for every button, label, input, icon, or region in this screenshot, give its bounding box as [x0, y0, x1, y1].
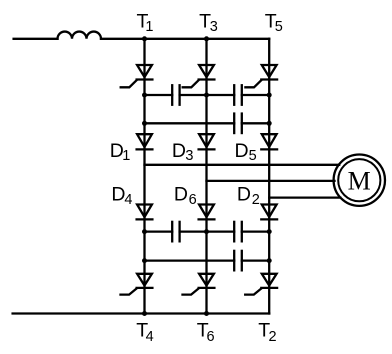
svg-text:D: D — [172, 140, 186, 162]
label D1 — [110, 140, 131, 164]
node: row2 / leg1 junction — [142, 121, 147, 126]
diode D1 — [137, 134, 153, 149]
label D5 — [235, 140, 257, 164]
thyristor T5 — [245, 65, 277, 87]
label T5 — [265, 10, 283, 35]
capacitor C12 (lower bank) — [172, 221, 179, 243]
svg-text:M: M — [348, 167, 371, 196]
label T1 — [137, 10, 154, 35]
label D4 — [111, 184, 132, 209]
node: row3 / leg3 junction — [267, 229, 272, 234]
node: row2 / leg3 junction — [267, 121, 272, 126]
label T3 — [199, 10, 218, 35]
label D3 — [172, 140, 194, 164]
svg-text:3: 3 — [185, 148, 193, 164]
thyristor T4 — [121, 274, 153, 295]
svg-text:1: 1 — [122, 148, 130, 164]
inductor L (DC link choke) — [58, 32, 102, 39]
wire: cap row2 leg1 to leg3 — [145, 122, 270, 124]
diode D4 — [137, 205, 153, 220]
wire: cap row3 leg2 to leg3 — [207, 230, 270, 232]
svg-text:4: 4 — [124, 192, 132, 208]
diode D2 — [261, 205, 277, 220]
label T6 — [197, 319, 215, 345]
svg-text:D: D — [174, 184, 188, 206]
thyristor T6 — [183, 274, 215, 295]
motor M inner circle — [338, 159, 380, 201]
wire: inductor to top rail — [101, 38, 145, 40]
svg-text:1: 1 — [145, 19, 153, 35]
svg-text:2: 2 — [269, 329, 277, 345]
wire: cap row4 leg1 to leg3 — [145, 259, 270, 261]
svg-text:6: 6 — [189, 192, 197, 208]
wire: cap row1 leg1 to leg2 — [145, 94, 207, 96]
wire: cap row3 leg1 to leg2 — [145, 230, 207, 232]
svg-text:D: D — [237, 184, 251, 206]
thyristor T1 — [121, 65, 153, 87]
capacitor C31 (lower bank) — [234, 250, 242, 272]
svg-text:4: 4 — [146, 329, 154, 345]
label D2 — [237, 184, 260, 209]
thyristor T2 — [245, 274, 277, 295]
wire: phase b output to motor — [207, 180, 335, 182]
wire: phase a output to motor — [145, 164, 340, 166]
capacitor C23 (upper bank) — [234, 84, 242, 106]
wire: bottom rail from left edge to leg3 — [13, 312, 270, 314]
wire: leg 2 vertical (phase b) — [205, 39, 207, 314]
capacitor C23 (lower bank) — [234, 221, 242, 243]
svg-text:5: 5 — [249, 148, 257, 164]
wire: leg 3 vertical (phase c) — [268, 39, 270, 314]
diode D3 — [199, 134, 215, 149]
diode D6 — [199, 205, 215, 220]
label D6 — [174, 184, 197, 209]
svg-text:5: 5 — [275, 19, 283, 35]
wire: leg 1 vertical (phase a) — [143, 39, 145, 314]
motor M outer circle — [334, 155, 385, 206]
wire: cap row1 leg2 to leg3 — [207, 94, 270, 96]
svg-text:2: 2 — [252, 192, 260, 208]
svg-text:3: 3 — [210, 19, 218, 35]
wire: top rail leg1 to leg3 — [145, 38, 270, 40]
wire: phase c output to motor — [269, 196, 340, 198]
node: bottom rail / leg2 junction — [204, 311, 209, 316]
capacitor C12 (upper bank) — [172, 84, 179, 106]
label T2 — [258, 319, 276, 345]
node: bottom rail / leg1 junction — [142, 311, 147, 316]
svg-text:D: D — [111, 184, 125, 206]
thyristor T3 — [183, 65, 215, 87]
capacitor C31 (upper bank) — [234, 112, 242, 134]
label T4 — [136, 319, 153, 345]
wire: DC input from left edge to inductor — [14, 38, 58, 40]
node: row4 / leg1 junction — [142, 258, 147, 263]
diode D5 — [261, 134, 277, 149]
node: top rail / leg2 junction — [204, 36, 209, 41]
node: top rail / leg1 junction — [142, 36, 147, 41]
node: row3 / leg2 junction — [204, 229, 209, 234]
node: row1 / leg1 junction — [142, 93, 147, 98]
node: row4 / leg3 junction — [267, 258, 272, 263]
node: row3 / leg1 junction — [142, 229, 147, 234]
node: row1 / leg2 junction — [204, 93, 209, 98]
node: row1 / leg3 junction — [267, 93, 272, 98]
svg-text:D: D — [235, 140, 249, 162]
svg-text:6: 6 — [207, 329, 215, 345]
